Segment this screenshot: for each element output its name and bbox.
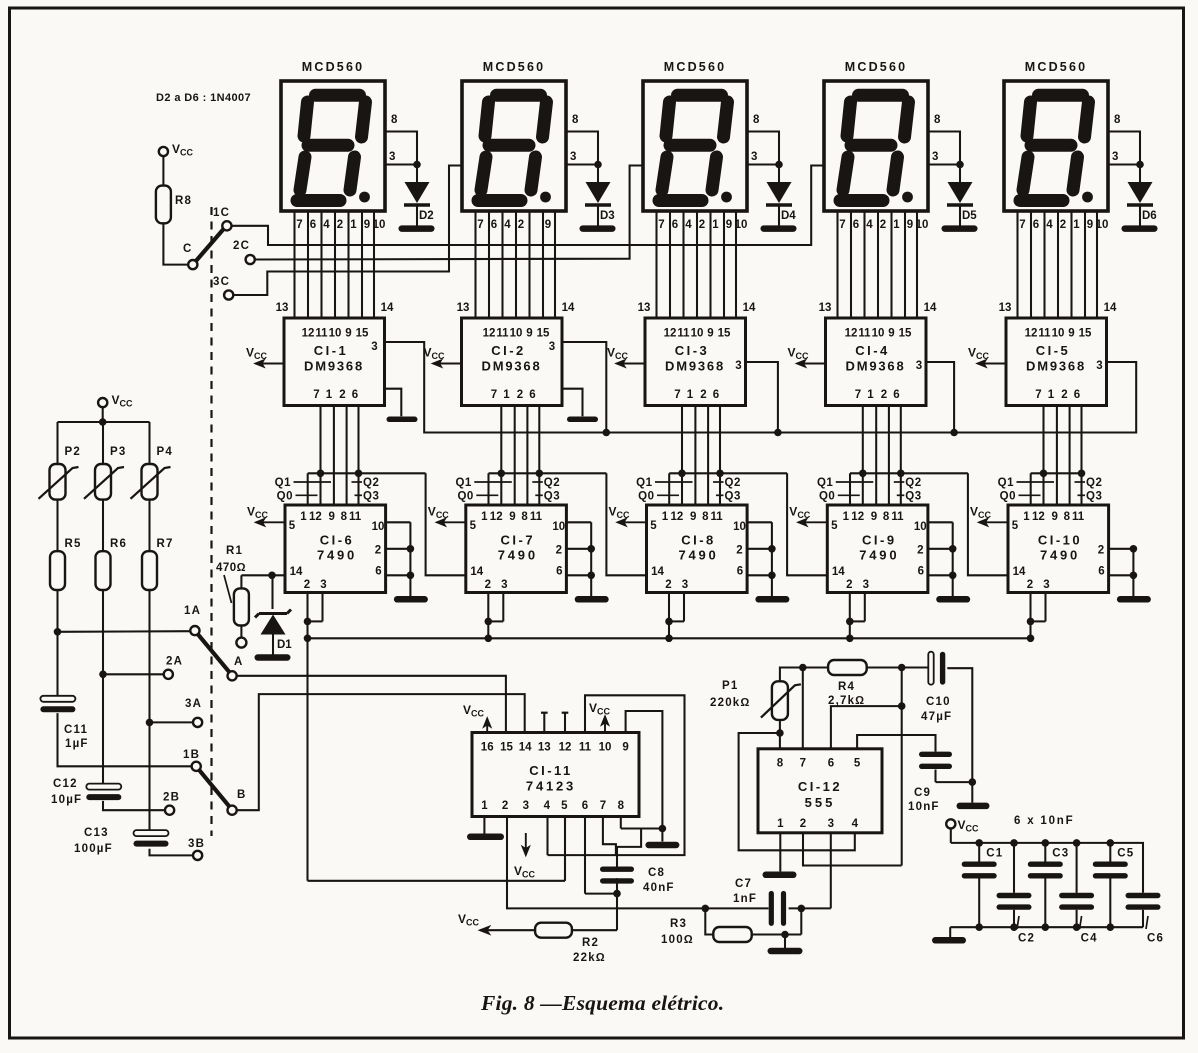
svg-text:6: 6 — [918, 566, 924, 578]
svg-text:C11: C11 — [64, 724, 88, 736]
CI-8 R0/R9 strap to ground — [747, 522, 789, 602]
svg-text:3C: 3C — [213, 276, 230, 288]
svg-text:11: 11 — [858, 328, 871, 340]
Q taps of CI-10 — [998, 470, 1103, 506]
svg-text:3: 3 — [523, 800, 529, 812]
svg-text:10µF: 10µF — [51, 794, 82, 806]
CI-4 output wires to CI-9 — [863, 406, 901, 506]
capacitor C11 1uF — [40, 696, 88, 750]
VCC feed CI-1 — [246, 346, 284, 368]
svg-text:CI-9: CI-9 — [862, 533, 897, 548]
svg-text:9: 9 — [707, 328, 713, 340]
svg-text:6: 6 — [491, 219, 497, 231]
display DS3 pin labels — [658, 219, 747, 231]
svg-text:1µF: 1µF — [65, 738, 89, 750]
contact 3B — [188, 838, 205, 860]
svg-text:14: 14 — [519, 742, 532, 754]
svg-text:6: 6 — [853, 219, 859, 231]
svg-text:Q3: Q3 — [363, 491, 379, 503]
wire R1 to CI-6 pin14 — [241, 572, 285, 580]
CI-10 R0/R9 strap to ground — [1109, 545, 1151, 603]
svg-text:C10: C10 — [926, 696, 951, 708]
svg-text:2: 2 — [1060, 219, 1066, 231]
capacitor C12 10uF — [51, 778, 121, 806]
ground R3/C7 — [768, 935, 803, 955]
capacitor C13 100uF — [74, 827, 169, 855]
svg-text:3: 3 — [916, 360, 922, 372]
svg-text:13: 13 — [457, 302, 470, 314]
svg-text:1: 1 — [843, 511, 850, 523]
diode D3 — [580, 165, 616, 232]
wire R6 down — [102, 590, 104, 784]
svg-text:DM9368: DM9368 — [846, 359, 906, 374]
svg-text:13: 13 — [638, 302, 651, 314]
svg-text:Q1: Q1 — [275, 477, 291, 489]
display DS3 anode pins 8,3 — [747, 114, 783, 168]
svg-text:14: 14 — [381, 302, 394, 314]
svg-text:9: 9 — [364, 219, 370, 231]
svg-text:6: 6 — [672, 219, 678, 231]
svg-text:Q2: Q2 — [544, 477, 560, 489]
IC CI-7 7490 — [466, 505, 567, 593]
svg-text:13: 13 — [538, 742, 551, 754]
svg-text:11: 11 — [530, 511, 543, 523]
Q taps of CI-9 — [817, 470, 1008, 576]
svg-text:5: 5 — [470, 520, 477, 532]
svg-text:3: 3 — [320, 579, 326, 591]
svg-text:12: 12 — [483, 328, 496, 340]
IC CI-9 7490 — [827, 505, 928, 593]
contact 3C — [224, 290, 233, 299]
resistor R7 — [142, 538, 174, 590]
IC CI-5 DM9368 — [1006, 318, 1107, 406]
display DS1 MCD560 — [281, 60, 385, 211]
svg-text:14: 14 — [290, 566, 303, 578]
svg-text:11: 11 — [315, 328, 328, 340]
wire P4 to R7 — [148, 500, 150, 552]
svg-text:CI-4: CI-4 — [855, 343, 890, 358]
bypass bank bottom rail + ground — [932, 923, 1143, 943]
svg-text:10: 10 — [552, 521, 565, 533]
svg-text:6: 6 — [582, 800, 588, 812]
switch A arm — [198, 634, 230, 672]
svg-text:2: 2 — [502, 800, 508, 812]
svg-text:2: 2 — [736, 545, 742, 557]
wire 555 pin3 output — [830, 833, 832, 909]
svg-text:7490: 7490 — [1040, 548, 1080, 563]
svg-text:1: 1 — [326, 389, 333, 401]
display DS4 pin labels — [839, 219, 928, 231]
svg-text:12: 12 — [309, 511, 322, 523]
svg-text:7: 7 — [1035, 389, 1041, 401]
svg-text:12: 12 — [851, 511, 864, 523]
svg-text:5: 5 — [561, 800, 568, 812]
svg-text:47µF: 47µF — [921, 711, 952, 723]
svg-text:3: 3 — [570, 151, 578, 163]
svg-text:4: 4 — [504, 219, 511, 231]
svg-text:MCD560: MCD560 — [302, 60, 365, 74]
display DS4 anode pins 8,3 — [928, 114, 964, 168]
CI-11 pin12 stub — [564, 713, 566, 733]
svg-text:8: 8 — [702, 511, 709, 523]
svg-text:15: 15 — [356, 328, 369, 340]
svg-text:2: 2 — [337, 219, 343, 231]
svg-text:1C: 1C — [213, 207, 230, 219]
svg-text:3: 3 — [389, 151, 397, 163]
svg-text:15: 15 — [899, 328, 912, 340]
VCC feed CI-5 — [968, 346, 1006, 368]
svg-text:14: 14 — [924, 302, 937, 314]
wire C11 to 1B — [58, 713, 192, 766]
svg-text:6: 6 — [893, 389, 899, 401]
diode D2 — [399, 165, 435, 232]
svg-text:2: 2 — [880, 219, 886, 231]
svg-text:1: 1 — [687, 389, 694, 401]
svg-text:12: 12 — [1025, 328, 1038, 340]
wire P1 top to R4 line — [780, 668, 828, 682]
ground stub CI-1 — [385, 389, 418, 422]
svg-text:Fig. 8 —Esquema elétrico.: Fig. 8 —Esquema elétrico. — [480, 991, 724, 1015]
wire CI-6 input chain down — [308, 638, 566, 881]
svg-text:CI-1: CI-1 — [314, 343, 349, 358]
wire — [162, 156, 164, 185]
svg-text:6: 6 — [352, 389, 358, 401]
resistor R6 — [96, 538, 128, 590]
svg-text:Q3: Q3 — [544, 491, 560, 503]
svg-text:8: 8 — [572, 114, 580, 126]
svg-text:C5: C5 — [1117, 848, 1134, 860]
svg-text:4: 4 — [1046, 219, 1053, 231]
wire — [163, 223, 188, 264]
pin-3 blanking bus of DM9368s — [385, 342, 1137, 436]
svg-text:C8: C8 — [648, 867, 665, 879]
svg-text:7: 7 — [491, 389, 497, 401]
resistor R4 2.7k — [828, 660, 930, 707]
svg-text:4: 4 — [852, 818, 859, 830]
divider supply rail — [58, 418, 150, 464]
CI-5 output wires to CI-10 — [1044, 406, 1082, 506]
svg-text:D5: D5 — [962, 210, 977, 222]
svg-text:2C: 2C — [233, 240, 250, 252]
node 13/14 labels DS1 — [276, 302, 394, 314]
display DS2 MCD560 — [462, 60, 566, 211]
svg-text:7: 7 — [313, 389, 319, 401]
VCC feed R2 — [458, 912, 490, 935]
svg-text:2: 2 — [917, 545, 923, 557]
svg-text:1nF: 1nF — [733, 893, 757, 905]
VCC feed CI-11 pin16 — [463, 703, 491, 733]
svg-text:7: 7 — [296, 219, 302, 231]
IC CI-1 DM9368 — [284, 318, 385, 406]
svg-text:1: 1 — [662, 511, 669, 523]
svg-text:1: 1 — [1048, 389, 1055, 401]
display DS5 anode pins 8,3 — [1108, 114, 1144, 168]
display DS2 pin wires to CI-2 — [476, 211, 556, 318]
node 13/14 labels DS4 — [819, 302, 937, 314]
svg-text:7490: 7490 — [859, 548, 899, 563]
svg-text:9: 9 — [622, 742, 628, 754]
CI-9 R0/R9 strap to ground — [928, 522, 970, 602]
diode D6 — [1122, 165, 1158, 232]
CI-6 R0/R9 strap to ground — [386, 522, 428, 602]
CI-1 output wires to CI-6 — [321, 406, 359, 506]
wire switch B to CI-11 pin14 — [237, 694, 525, 810]
svg-text:12: 12 — [302, 328, 315, 340]
svg-text:10: 10 — [733, 521, 746, 533]
svg-text:4: 4 — [544, 800, 551, 812]
svg-text:D3: D3 — [600, 210, 615, 222]
svg-text:1: 1 — [481, 800, 488, 812]
svg-text:2: 2 — [800, 818, 806, 830]
wire CI-11 pin6 to C8 — [585, 817, 621, 931]
svg-text:4: 4 — [685, 219, 692, 231]
node 13/14 labels DS2 — [457, 302, 575, 314]
svg-text:9: 9 — [888, 328, 894, 340]
svg-text:12: 12 — [490, 511, 503, 523]
svg-text:MCD560: MCD560 — [483, 60, 546, 74]
svg-text:7: 7 — [800, 758, 806, 770]
svg-text:12: 12 — [845, 328, 858, 340]
svg-text:5: 5 — [854, 758, 861, 770]
ground stub CI-2 — [562, 389, 598, 422]
svg-text:15: 15 — [500, 742, 513, 754]
svg-text:9: 9 — [1068, 328, 1074, 340]
power terminal VCC (dividers) — [98, 393, 133, 422]
svg-text:1: 1 — [300, 511, 307, 523]
display DS3 pin wires to CI-3 — [657, 211, 737, 318]
svg-text:R6: R6 — [110, 538, 127, 550]
svg-text:11: 11 — [1038, 328, 1051, 340]
svg-text:7: 7 — [477, 219, 483, 231]
svg-text:3: 3 — [828, 818, 834, 830]
contact 2C — [246, 255, 255, 264]
test terminal below R1 — [236, 638, 246, 648]
svg-text:11: 11 — [349, 511, 362, 523]
potentiometer P1 220k — [710, 680, 801, 720]
power terminal VCC (R8) — [159, 147, 168, 156]
wire C13 to 3B — [150, 849, 194, 856]
capacitor C6 10nF — [1126, 893, 1165, 945]
IC CI-2 DM9368 — [462, 318, 563, 406]
svg-text:CI-12: CI-12 — [798, 779, 842, 794]
svg-text:11: 11 — [677, 328, 690, 340]
potentiometer P2 — [39, 446, 81, 500]
display DS5 MCD560 — [1004, 60, 1108, 211]
svg-text:Q3: Q3 — [905, 491, 921, 503]
VCC feed CI-11 pin10 — [589, 701, 611, 733]
display DS1 pin wires to CI-1 — [295, 211, 375, 318]
svg-text:11: 11 — [711, 511, 724, 523]
IC CI-11 74123 — [472, 733, 639, 817]
resistor R8 — [156, 186, 171, 224]
resistor R2 22k — [480, 923, 617, 964]
svg-text:10: 10 — [372, 521, 385, 533]
svg-text:C1: C1 — [986, 848, 1003, 860]
svg-text:7490: 7490 — [498, 548, 538, 563]
svg-text:100Ω: 100Ω — [661, 934, 694, 946]
IC CI-10 7490 — [1008, 505, 1109, 593]
svg-text:MCD560: MCD560 — [1025, 60, 1088, 74]
svg-text:CI-5: CI-5 — [1036, 343, 1071, 358]
svg-text:10: 10 — [510, 328, 523, 340]
svg-text:7: 7 — [674, 389, 680, 401]
svg-text:7: 7 — [658, 219, 664, 231]
svg-text:3: 3 — [549, 341, 555, 353]
wire C9 bottom — [936, 770, 973, 783]
wire R7 down — [148, 590, 150, 830]
CI-11 pins 11-7-4 loop — [548, 695, 685, 855]
svg-text:R3: R3 — [670, 918, 687, 930]
display DS1 anode pins 8,3 — [385, 114, 421, 168]
svg-text:9: 9 — [328, 511, 334, 523]
svg-text:6: 6 — [529, 389, 535, 401]
svg-text:CI-7: CI-7 — [501, 533, 536, 548]
potentiometer P4 — [131, 446, 173, 500]
svg-text:6: 6 — [1074, 389, 1080, 401]
svg-text:C4: C4 — [1081, 933, 1098, 945]
svg-text:4: 4 — [866, 219, 873, 231]
node 13/14 labels DS5 — [999, 302, 1117, 314]
svg-text:3: 3 — [863, 579, 869, 591]
svg-text:1: 1 — [867, 389, 874, 401]
resistor R3 100ohm — [661, 918, 801, 946]
svg-text:1: 1 — [893, 219, 900, 231]
capacitor C2 10nF — [997, 843, 1036, 945]
svg-text:3: 3 — [1096, 360, 1102, 372]
svg-text:9: 9 — [871, 511, 877, 523]
svg-text:1: 1 — [1023, 511, 1030, 523]
svg-text:Q1: Q1 — [817, 477, 833, 489]
svg-text:2: 2 — [665, 579, 671, 591]
svg-text:Q2: Q2 — [905, 477, 921, 489]
svg-text:2A: 2A — [166, 656, 183, 668]
contact 2B — [163, 792, 180, 815]
CI-9 pins 2,3 join — [846, 593, 865, 643]
VCC feed CI-4 — [788, 346, 826, 368]
svg-text:220kΩ: 220kΩ — [710, 697, 750, 709]
svg-text:11: 11 — [579, 742, 592, 754]
svg-text:CI-6: CI-6 — [320, 533, 355, 548]
svg-text:2B: 2B — [163, 792, 180, 804]
wire P1 bottom to 555 pin8 and pin4 — [739, 720, 855, 850]
IC CI-6 7490 — [285, 505, 386, 593]
display DS1 pin labels — [296, 219, 385, 231]
svg-text:D1: D1 — [277, 639, 292, 651]
wire 555 pin5 to C9 — [857, 735, 935, 752]
svg-text:1A: 1A — [184, 605, 201, 617]
svg-text:14: 14 — [1104, 302, 1117, 314]
svg-text:13: 13 — [999, 302, 1012, 314]
svg-text:12: 12 — [664, 328, 677, 340]
wire C12 to 2B — [103, 801, 165, 810]
CI-7 R0/R9 strap to ground — [566, 522, 608, 602]
svg-text:Q1: Q1 — [455, 477, 471, 489]
svg-text:C12: C12 — [53, 778, 78, 790]
VCC feed CI-3 — [607, 346, 645, 368]
svg-text:R5: R5 — [65, 538, 82, 550]
CI-10 pins 2,3 join — [1027, 593, 1046, 643]
svg-text:2: 2 — [375, 545, 381, 557]
svg-text:14: 14 — [651, 566, 664, 578]
svg-text:40nF: 40nF — [643, 882, 675, 894]
svg-text:DM9368: DM9368 — [665, 359, 725, 374]
svg-text:MCD560: MCD560 — [664, 60, 727, 74]
svg-text:12: 12 — [559, 742, 572, 754]
svg-text:2: 2 — [1027, 579, 1033, 591]
capacitor C3 10nF — [1028, 843, 1070, 927]
svg-text:4: 4 — [323, 219, 330, 231]
svg-text:CI-3: CI-3 — [675, 343, 710, 358]
svg-text:9: 9 — [690, 511, 696, 523]
svg-text:6: 6 — [375, 566, 381, 578]
svg-text:5: 5 — [650, 520, 657, 532]
wire P3 to R6 — [102, 500, 104, 552]
svg-text:CI-10: CI-10 — [1038, 533, 1082, 548]
svg-text:9: 9 — [726, 219, 732, 231]
IC CI-12 555 — [758, 749, 882, 833]
svg-text:7: 7 — [855, 389, 861, 401]
svg-text:555: 555 — [805, 795, 836, 810]
CI-2 output wires to CI-7 — [501, 406, 539, 506]
IC CI-8 7490 — [647, 505, 748, 593]
svg-text:6: 6 — [828, 758, 834, 770]
svg-text:2: 2 — [485, 579, 491, 591]
capacitor C9 10nF — [908, 752, 952, 813]
svg-text:8: 8 — [883, 511, 890, 523]
svg-text:1: 1 — [350, 219, 357, 231]
svg-text:9: 9 — [907, 219, 913, 231]
svg-text:13: 13 — [819, 302, 832, 314]
contact 3A — [146, 698, 203, 727]
svg-text:Q0: Q0 — [457, 491, 473, 503]
zener diode D1 — [255, 575, 293, 660]
display DS4 MCD560 — [824, 60, 928, 211]
svg-text:C2: C2 — [1018, 933, 1035, 945]
svg-text:3A: 3A — [185, 698, 202, 710]
contact 1B — [183, 749, 201, 771]
IC CI-4 DM9368 — [826, 318, 927, 406]
svg-text:9: 9 — [545, 219, 551, 231]
svg-text:6: 6 — [310, 219, 316, 231]
svg-text:14: 14 — [562, 302, 575, 314]
wire C10 right to ground — [947, 668, 989, 809]
display DS4 pin wires to CI-4 — [838, 211, 918, 318]
capacitor C1 10nF — [962, 843, 1004, 927]
svg-text:Q2: Q2 — [1086, 477, 1102, 489]
Q taps of CI-6 — [275, 470, 466, 576]
svg-text:3: 3 — [682, 579, 688, 591]
svg-text:Q0: Q0 — [277, 491, 293, 503]
svg-text:10nF: 10nF — [908, 801, 940, 813]
svg-text:DM9368: DM9368 — [482, 359, 542, 374]
capacitor C8 40nF — [600, 867, 675, 895]
svg-text:5: 5 — [1012, 520, 1019, 532]
svg-text:7490: 7490 — [678, 548, 718, 563]
svg-text:DM9368: DM9368 — [1026, 359, 1086, 374]
svg-text:C13: C13 — [84, 827, 109, 839]
svg-text:2: 2 — [1098, 545, 1104, 557]
svg-text:10: 10 — [1052, 328, 1065, 340]
svg-text:D6: D6 — [1142, 210, 1157, 222]
svg-text:15: 15 — [718, 328, 731, 340]
svg-text:6 x 10nF: 6 x 10nF — [1014, 815, 1074, 827]
svg-text:3: 3 — [751, 151, 759, 163]
svg-text:9: 9 — [526, 328, 532, 340]
svg-text:22kΩ: 22kΩ — [573, 952, 606, 964]
svg-text:16: 16 — [481, 742, 494, 754]
svg-text:12: 12 — [1032, 511, 1045, 523]
svg-text:Q2: Q2 — [363, 477, 379, 489]
